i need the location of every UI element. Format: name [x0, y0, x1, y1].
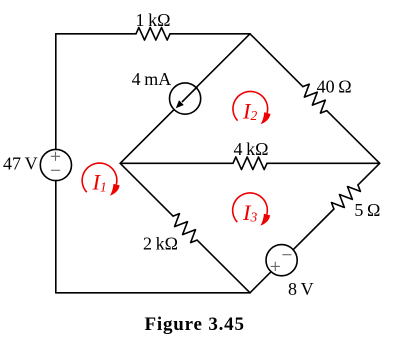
svg-text:47 V: 47 V [3, 154, 38, 174]
svg-text:4 mA: 4 mA [132, 69, 172, 89]
svg-text:8 V: 8 V [288, 279, 314, 299]
svg-text:40 Ω: 40 Ω [317, 76, 352, 96]
svg-text:4 kΩ: 4 kΩ [234, 139, 269, 159]
svg-text:5 Ω: 5 Ω [354, 200, 380, 220]
svg-text:Figure 3.45: Figure 3.45 [145, 314, 245, 335]
svg-text:1 kΩ: 1 kΩ [136, 10, 171, 30]
svg-text:2 kΩ: 2 kΩ [143, 234, 178, 254]
